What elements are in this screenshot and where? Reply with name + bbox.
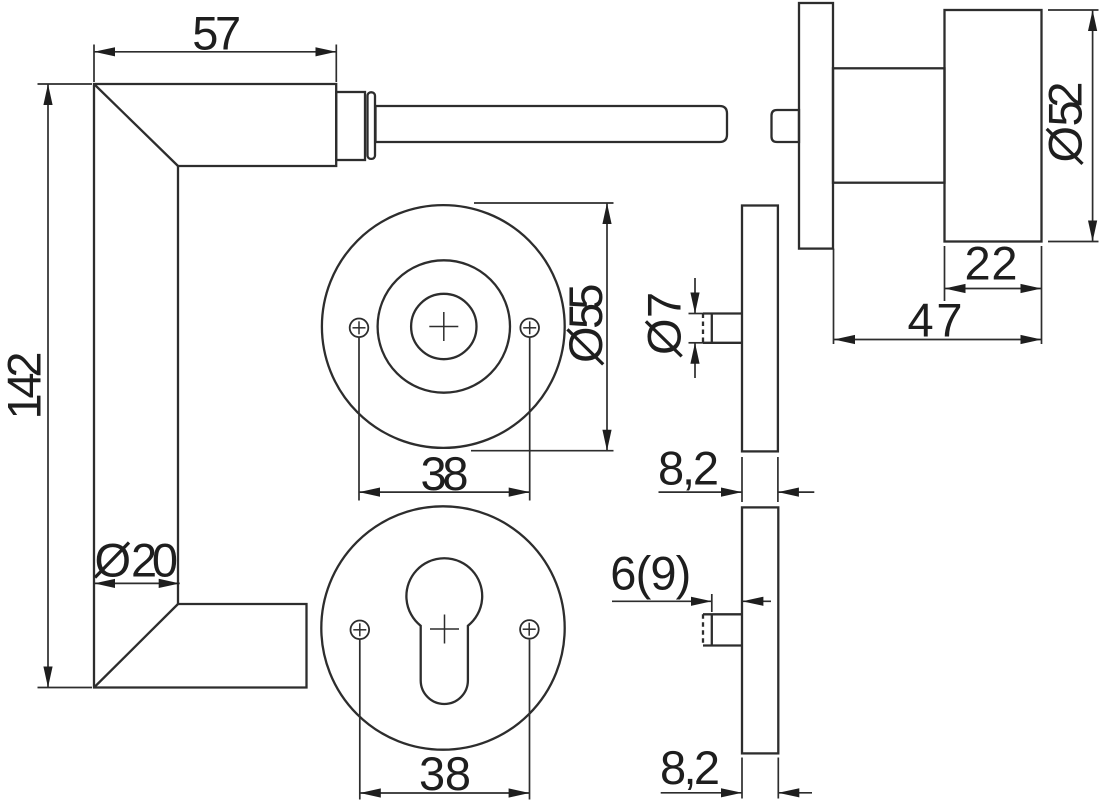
svg-text:20: 20: [131, 534, 182, 587]
svg-text:55: 55: [559, 280, 612, 330]
svg-text:O: O: [638, 318, 691, 355]
svg-text:38: 38: [421, 447, 473, 500]
svg-text:22: 22: [965, 237, 1022, 290]
svg-text:8,2: 8,2: [660, 741, 720, 794]
svg-text:142: 142: [0, 349, 51, 420]
svg-text:7: 7: [638, 292, 691, 318]
svg-text:6(9): 6(9): [610, 547, 691, 600]
svg-text:38: 38: [419, 747, 475, 800]
svg-text:O: O: [559, 326, 612, 363]
svg-text:57: 57: [192, 7, 245, 60]
svg-text:O: O: [1038, 126, 1091, 163]
svg-text:47: 47: [908, 294, 967, 347]
svg-text:52: 52: [1038, 78, 1091, 127]
svg-text:8,2: 8,2: [658, 442, 719, 495]
